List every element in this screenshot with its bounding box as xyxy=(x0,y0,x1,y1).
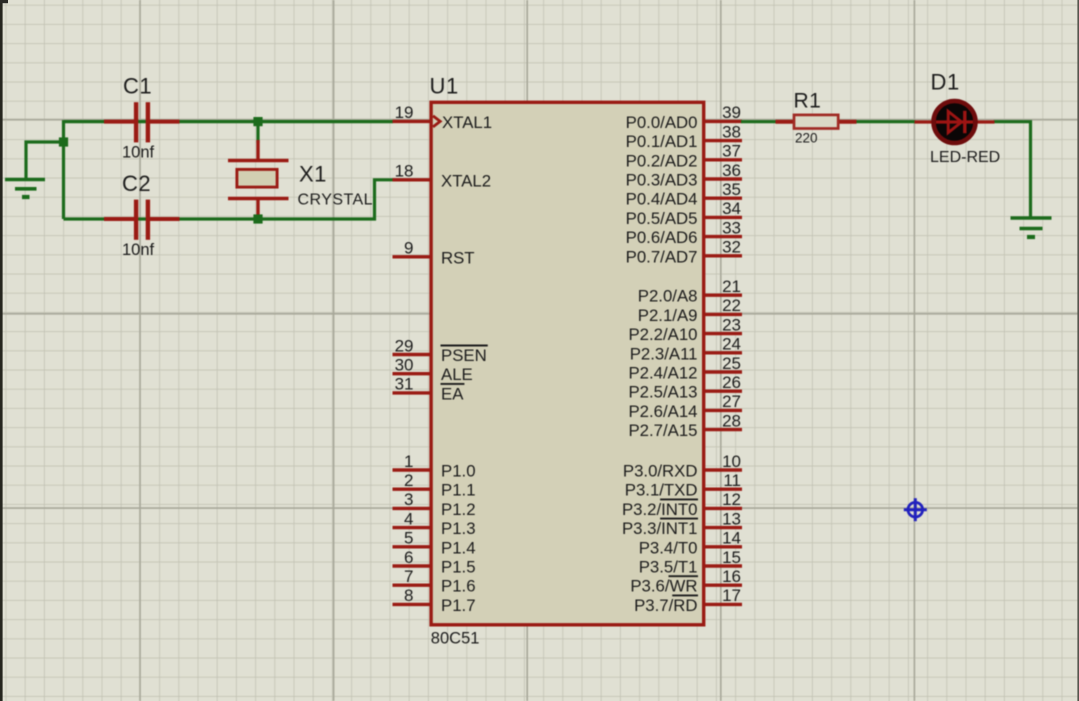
svg-text:34: 34 xyxy=(722,199,741,218)
capacitor C1 xyxy=(104,102,180,142)
value label LED-RED xyxy=(930,149,1000,166)
U1 pin 22 (P2.1/A9) xyxy=(638,296,742,325)
value label 80C51 xyxy=(431,630,480,648)
svg-text:RST: RST xyxy=(441,248,475,267)
U1 pin 27 (P2.6/A14) xyxy=(628,392,742,421)
node: junction C1/XTAL1 rail xyxy=(253,117,262,126)
svg-text:5: 5 xyxy=(404,529,413,548)
svg-text:13: 13 xyxy=(722,509,741,528)
svg-text:P1.4: P1.4 xyxy=(441,538,476,557)
U1 pin 28 (P2.7/A15) xyxy=(628,411,742,440)
svg-text:37: 37 xyxy=(722,142,741,161)
svg-text:39: 39 xyxy=(722,103,741,122)
svg-text:16: 16 xyxy=(722,567,741,586)
value label 10nf (C1) xyxy=(122,144,155,162)
svg-text:31: 31 xyxy=(395,375,414,394)
svg-text:P2.6/A14: P2.6/A14 xyxy=(628,402,697,421)
LED D1 xyxy=(915,101,995,143)
svg-text:P1.1: P1.1 xyxy=(441,481,476,500)
U1 pin 18 (XTAL2) xyxy=(393,162,492,191)
U1 pin 32 (P0.7/AD7) xyxy=(626,238,742,267)
U1 pin 33 (P0.6/AD6) xyxy=(626,218,742,247)
svg-text:18: 18 xyxy=(395,162,414,181)
svg-text:10: 10 xyxy=(722,452,741,471)
svg-text:P0.0/AD0: P0.0/AD0 xyxy=(626,113,698,132)
U1 pin 31 (EA) xyxy=(393,375,465,404)
svg-text:21: 21 xyxy=(722,277,741,296)
U1 pin 8 (P1.7) xyxy=(393,586,476,615)
U1 pin 35 (P0.4/AD4) xyxy=(626,180,742,209)
U1 pin 5 (P1.4) xyxy=(393,529,476,558)
svg-text:27: 27 xyxy=(722,392,741,411)
U1 pin 1 (P1.0) xyxy=(393,452,476,481)
label C2 xyxy=(122,171,151,196)
value label 220 xyxy=(795,131,818,146)
U1 pin 17 (P3.7/RD) xyxy=(634,586,742,615)
IC U1 body (80C51) xyxy=(431,102,704,625)
label C1 xyxy=(123,74,152,99)
wire D1 to ground xyxy=(994,122,1031,217)
label X1 xyxy=(299,162,327,187)
svg-text:P1.7: P1.7 xyxy=(441,596,476,615)
U1 pin 29 (PSEN) xyxy=(393,336,488,365)
U1 pin 3 (P1.2) xyxy=(393,490,476,519)
U1 pin 30 (ALE) xyxy=(393,356,473,385)
svg-text:23: 23 xyxy=(722,315,741,334)
svg-text:14: 14 xyxy=(722,529,741,548)
svg-text:10nf: 10nf xyxy=(122,241,155,259)
node: junction C2/crystal bottom rail xyxy=(253,214,262,223)
svg-text:P0.6/AD6: P0.6/AD6 xyxy=(626,228,698,247)
svg-text:P2.2/A10: P2.2/A10 xyxy=(628,325,697,344)
wire crystal to XTAL2 xyxy=(375,180,394,221)
svg-text:CRYSTAL: CRYSTAL xyxy=(298,192,373,209)
resistor R1 xyxy=(776,115,857,129)
svg-text:33: 33 xyxy=(722,218,741,237)
svg-text:EA: EA xyxy=(441,384,464,403)
svg-text:P1.3: P1.3 xyxy=(441,519,476,538)
svg-text:29: 29 xyxy=(395,336,414,355)
svg-text:C2: C2 xyxy=(122,171,151,196)
U1 pin 26 (P2.5/A13) xyxy=(628,373,742,402)
svg-text:P2.1/A9: P2.1/A9 xyxy=(638,306,698,325)
U1 pin 21 (P2.0/A8) xyxy=(638,277,742,306)
svg-text:XTAL2: XTAL2 xyxy=(441,171,491,190)
svg-text:XTAL1: XTAL1 xyxy=(442,113,492,132)
svg-text:6: 6 xyxy=(404,548,413,567)
svg-text:15: 15 xyxy=(722,548,741,567)
svg-text:P2.3/A11: P2.3/A11 xyxy=(630,344,698,363)
svg-text:C1: C1 xyxy=(123,74,152,99)
svg-text:12: 12 xyxy=(722,490,741,509)
svg-text:P0.2/AD2: P0.2/AD2 xyxy=(626,151,698,170)
svg-text:P3.1/TXD: P3.1/TXD xyxy=(625,481,698,500)
svg-text:4: 4 xyxy=(404,509,413,528)
svg-text:P3.3/INT1: P3.3/INT1 xyxy=(622,519,698,538)
origin marker (blue crosshair) xyxy=(904,498,927,521)
U1 pin 25 (P2.4/A12) xyxy=(628,354,742,383)
svg-text:25: 25 xyxy=(722,354,741,373)
U1 pin 7 (P1.6) xyxy=(393,567,476,596)
wire XTAL1 net (C1 top rail) xyxy=(64,120,394,123)
svg-text:28: 28 xyxy=(722,411,741,430)
U1 pin 13 (P3.3/INT1) xyxy=(622,509,742,538)
svg-text:7: 7 xyxy=(404,567,413,586)
svg-text:35: 35 xyxy=(722,180,741,199)
svg-text:P3.5/T1: P3.5/T1 xyxy=(639,558,698,577)
U1 pin 39 (P0.0/AD0) xyxy=(626,103,742,132)
svg-text:U1: U1 xyxy=(430,74,459,99)
crystal X1 xyxy=(228,140,289,220)
svg-text:P1.6: P1.6 xyxy=(441,577,476,596)
label U1 xyxy=(430,74,459,99)
svg-text:P1.2: P1.2 xyxy=(441,500,476,519)
svg-text:D1: D1 xyxy=(931,70,960,95)
ground (left) xyxy=(5,180,45,198)
svg-text:ALE: ALE xyxy=(441,365,473,384)
svg-text:P2.5/A13: P2.5/A13 xyxy=(628,383,697,402)
svg-text:R1: R1 xyxy=(794,90,822,113)
svg-text:P1.0: P1.0 xyxy=(441,462,476,481)
svg-text:38: 38 xyxy=(722,122,741,141)
U1 pin 11 (P3.1/TXD) xyxy=(625,471,742,500)
svg-text:P1.5: P1.5 xyxy=(441,558,476,577)
svg-text:22: 22 xyxy=(722,296,741,315)
svg-text:2: 2 xyxy=(404,471,413,490)
svg-text:P3.4/T0: P3.4/T0 xyxy=(639,538,698,557)
svg-text:PSEN: PSEN xyxy=(441,346,487,365)
svg-text:10nf: 10nf xyxy=(122,144,155,162)
wire bottom rail (C2/crystal) xyxy=(64,217,377,220)
svg-text:LED-RED: LED-RED xyxy=(930,149,1000,166)
value label CRYSTAL xyxy=(298,192,373,209)
U1 pin 24 (P2.3/A11) xyxy=(630,335,742,364)
U1 pin 12 (P3.2/INT0) xyxy=(622,490,742,519)
svg-text:P0.5/AD5: P0.5/AD5 xyxy=(626,209,698,228)
node: junction ground tap on left bus xyxy=(59,137,68,146)
U1 pin 19 (XTAL1) xyxy=(393,103,493,132)
wire ground tap xyxy=(26,142,64,179)
U1 pin 14 (P3.4/T0) xyxy=(639,529,742,558)
wire R1 to D1 xyxy=(856,120,916,123)
svg-text:P2.4/A12: P2.4/A12 xyxy=(628,364,697,383)
svg-text:P3.0/RXD: P3.0/RXD xyxy=(623,462,698,481)
svg-text:19: 19 xyxy=(395,103,414,122)
svg-text:P0.4/AD4: P0.4/AD4 xyxy=(626,190,698,209)
svg-text:P0.1/AD1: P0.1/AD1 xyxy=(626,132,698,151)
svg-text:P2.0/A8: P2.0/A8 xyxy=(638,287,698,306)
svg-text:P3.2/INT0: P3.2/INT0 xyxy=(622,500,698,519)
svg-text:X1: X1 xyxy=(299,162,327,187)
U1 pin 10 (P3.0/RXD) xyxy=(623,452,742,481)
svg-text:P0.7/AD7: P0.7/AD7 xyxy=(626,247,698,266)
svg-text:8: 8 xyxy=(404,586,413,605)
U1 pin 15 (P3.5/T1) xyxy=(639,548,742,577)
svg-text:P2.7/A15: P2.7/A15 xyxy=(628,421,697,440)
U1 pin 4 (P1.3) xyxy=(393,509,476,538)
svg-text:1: 1 xyxy=(404,452,413,471)
U1 pin 9 (RST) xyxy=(393,239,475,268)
svg-text:17: 17 xyxy=(722,586,741,605)
wire left vertical bus xyxy=(62,120,65,219)
svg-text:30: 30 xyxy=(395,356,414,375)
U1 pin 34 (P0.5/AD5) xyxy=(626,199,742,228)
U1 pin 6 (P1.5) xyxy=(393,548,476,577)
value label 10nf (C2) xyxy=(122,241,155,259)
svg-text:26: 26 xyxy=(722,373,741,392)
label D1 xyxy=(931,70,960,95)
U1 pin 23 (P2.2/A10) xyxy=(628,315,742,344)
U1 pin 36 (P0.3/AD3) xyxy=(626,161,742,190)
svg-text:24: 24 xyxy=(722,335,741,354)
svg-text:32: 32 xyxy=(722,238,741,257)
wire pin39 to R1 xyxy=(741,120,777,123)
svg-text:P3.6/WR: P3.6/WR xyxy=(630,577,697,596)
svg-text:3: 3 xyxy=(404,490,413,509)
svg-text:80C51: 80C51 xyxy=(431,630,480,648)
U1 pin 2 (P1.1) xyxy=(393,471,476,500)
U1 pin 16 (P3.6/WR) xyxy=(630,567,742,596)
U1 pin 38 (P0.1/AD1) xyxy=(626,122,742,151)
svg-text:11: 11 xyxy=(723,471,741,490)
svg-text:9: 9 xyxy=(404,239,413,258)
U1 pin 37 (P0.2/AD2) xyxy=(626,142,742,171)
svg-text:P3.7/RD: P3.7/RD xyxy=(634,596,697,615)
label R1 xyxy=(794,90,822,113)
svg-text:P0.3/AD3: P0.3/AD3 xyxy=(626,171,698,190)
ground (right) xyxy=(1011,218,1052,237)
svg-text:220: 220 xyxy=(795,131,818,146)
capacitor C2 xyxy=(104,200,180,240)
svg-text:36: 36 xyxy=(722,161,741,180)
wire stub junction to crystal top xyxy=(256,123,259,143)
